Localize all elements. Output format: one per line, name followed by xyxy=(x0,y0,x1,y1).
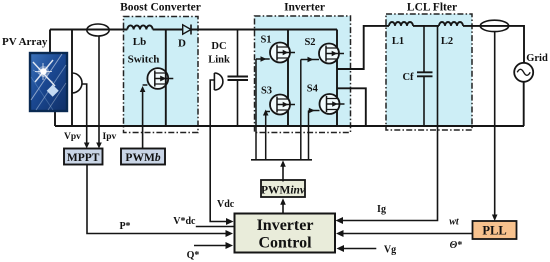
wire LCL to grid xyxy=(463,26,524,63)
Inverter Control box xyxy=(235,214,336,253)
arrow Vdc into control xyxy=(226,218,234,225)
PWMb box xyxy=(121,149,165,165)
svg-text:Cf: Cf xyxy=(402,72,414,83)
wire top rail xyxy=(50,29,337,31)
arrow gate S1 xyxy=(261,56,267,62)
svg-text:PWMb: PWMb xyxy=(125,152,160,164)
MOSFET S4 xyxy=(320,94,345,114)
inverter dashed box xyxy=(255,16,351,133)
svg-text:Ipv: Ipv xyxy=(103,132,117,142)
MOSFET S1 xyxy=(270,43,295,63)
PWMinv box xyxy=(261,180,306,197)
wire gate S2 xyxy=(301,60,319,160)
wire gate S4 xyxy=(309,111,320,160)
wire gate bus xyxy=(251,159,312,161)
wire P* from MPPT xyxy=(87,165,230,234)
svg-text:D: D xyxy=(178,38,186,50)
svg-text:Inverter: Inverter xyxy=(284,2,325,14)
svg-text:S4: S4 xyxy=(307,84,319,95)
svg-text:LCL Flter: LCL Flter xyxy=(407,2,457,14)
wire PV right vertical xyxy=(71,30,73,127)
MOSFET S3 xyxy=(270,95,295,115)
svg-text:PV Array: PV Array xyxy=(2,36,48,48)
inverter right leg wire xyxy=(336,30,338,127)
svg-text:PWMinv: PWMinv xyxy=(261,185,306,197)
svg-text:Lb: Lb xyxy=(133,36,146,48)
svg-text:wt: wt xyxy=(449,217,460,228)
svg-text:L2: L2 xyxy=(441,36,453,47)
svg-text:MPPT: MPPT xyxy=(67,152,100,164)
wire inverter output upper xyxy=(337,26,389,69)
svg-text:Link: Link xyxy=(208,55,230,66)
current sensor ellipse (grid side) xyxy=(480,20,508,31)
LCL filter dashed box xyxy=(386,14,472,130)
arrow Ig into control xyxy=(336,217,344,224)
current sensor ellipse (PV side) xyxy=(87,24,109,36)
wire PV bottom stub xyxy=(54,111,56,126)
wire PWMinv to gate bus xyxy=(282,163,284,182)
svg-text:PLL: PLL xyxy=(482,224,506,238)
arrow P* into control xyxy=(226,230,234,237)
arrow gate S2 xyxy=(308,57,314,63)
wire Vg xyxy=(339,248,376,250)
svg-text:Vg: Vg xyxy=(384,245,396,256)
arrow PLL output into control xyxy=(336,230,344,237)
svg-text:P*: P* xyxy=(119,221,130,232)
wire Ig tap xyxy=(338,26,438,221)
arrow to gate bus xyxy=(280,160,286,167)
wire Vpv from sensor xyxy=(82,84,87,146)
grid AC source xyxy=(514,63,533,126)
arrow into PLL xyxy=(492,215,498,222)
svg-text:Ig: Ig xyxy=(377,204,386,215)
svg-text:L1: L1 xyxy=(392,36,404,47)
svg-text:V*dc: V*dc xyxy=(173,216,196,227)
arrow gate S3 xyxy=(263,110,269,116)
wire inverter output lower xyxy=(337,88,366,126)
wire to PLL xyxy=(494,32,496,218)
inverter left leg wire xyxy=(287,30,289,127)
arrow gate S4 xyxy=(309,108,315,114)
wire between L1 L2 xyxy=(413,25,439,27)
inductor Lb xyxy=(127,25,152,29)
wire gate from PWMb xyxy=(143,85,148,149)
svg-text:S3: S3 xyxy=(261,86,272,97)
capacitor DC link xyxy=(228,30,249,127)
PV array panel xyxy=(30,53,67,111)
wire gate S3 xyxy=(266,112,270,160)
arrow gate boost xyxy=(140,86,146,92)
diode D xyxy=(183,25,191,35)
voltage sensor DC link xyxy=(214,73,223,90)
svg-text:Grid: Grid xyxy=(526,53,548,64)
arrow Vpv into MPPT xyxy=(84,143,90,149)
svg-text:DC: DC xyxy=(211,41,226,52)
inductor L1 xyxy=(389,22,413,26)
wire PV top stub xyxy=(49,30,51,54)
svg-text:Switch: Switch xyxy=(128,54,160,66)
svg-text:Θ*: Θ* xyxy=(450,240,463,251)
arrow into PWMinv xyxy=(280,198,286,205)
arrow Q* into control xyxy=(226,242,234,249)
svg-text:Vpv: Vpv xyxy=(64,132,81,142)
arrow Vg into control xyxy=(337,245,345,252)
svg-text:S2: S2 xyxy=(304,37,315,48)
wire V*dc xyxy=(196,226,235,228)
arrow Ipv into MPPT xyxy=(96,143,102,149)
boost converter dashed box xyxy=(124,17,199,133)
svg-text:Q*: Q* xyxy=(187,250,200,261)
wire PLL output xyxy=(338,233,473,235)
PLL box xyxy=(473,221,517,239)
svg-text:S1: S1 xyxy=(260,35,271,46)
wire gate S1 xyxy=(256,59,270,160)
MOSFET S2 xyxy=(319,44,344,64)
voltage sensor (PV) xyxy=(72,73,82,93)
svg-text:Inverter: Inverter xyxy=(257,217,314,234)
capacitor Cf xyxy=(417,26,433,126)
wire bottom rail xyxy=(55,125,524,127)
label DC Link xyxy=(208,41,230,66)
wire Ipv from ellipse xyxy=(98,36,100,146)
inductor L2 xyxy=(439,22,463,26)
wire Q* xyxy=(194,245,230,247)
MPPT box xyxy=(64,149,103,165)
svg-text:Control: Control xyxy=(258,235,312,252)
MOSFET boost switch xyxy=(147,30,173,127)
wire Vdc sensor to control xyxy=(210,80,230,222)
svg-text:Vdc: Vdc xyxy=(217,199,235,210)
wire control to PWMinv xyxy=(282,201,284,214)
svg-text:Boost Converter: Boost Converter xyxy=(120,2,201,14)
